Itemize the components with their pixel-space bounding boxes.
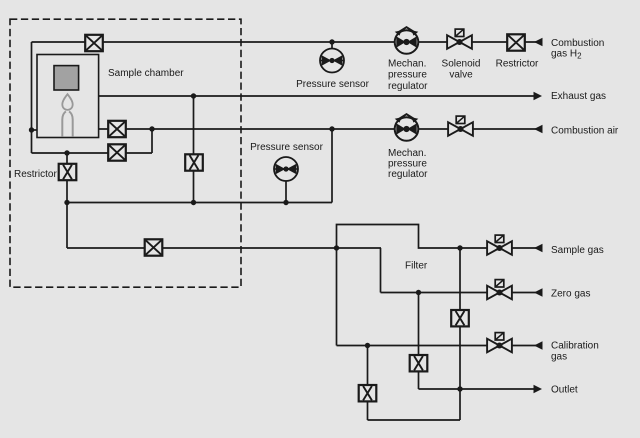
svg-text:Combustion air: Combustion air <box>551 126 619 137</box>
svg-text:Pressure sensor: Pressure sensor <box>296 79 369 90</box>
svg-text:Restrictor: Restrictor <box>496 59 539 70</box>
svg-text:Exhaust gas: Exhaust gas <box>551 91 606 102</box>
svg-text:gas: gas <box>551 352 567 363</box>
svg-text:Calibration: Calibration <box>551 341 599 352</box>
svg-text:pressure: pressure <box>388 70 427 81</box>
svg-text:Solenoid: Solenoid <box>442 59 481 70</box>
svg-text:Restrictor: Restrictor <box>14 169 57 180</box>
svg-text:valve: valve <box>449 70 473 81</box>
svg-text:regulator: regulator <box>388 81 428 92</box>
svg-text:Combustion: Combustion <box>551 38 604 49</box>
svg-text:Sample gas: Sample gas <box>551 245 604 256</box>
svg-text:regulator: regulator <box>388 169 428 180</box>
svg-text:Mechan.: Mechan. <box>388 59 426 70</box>
svg-text:Outlet: Outlet <box>551 385 578 396</box>
svg-text:Filter: Filter <box>405 261 428 272</box>
svg-text:Mechan.: Mechan. <box>388 148 426 159</box>
svg-text:pressure: pressure <box>388 159 427 170</box>
svg-text:Zero gas: Zero gas <box>551 289 590 300</box>
svg-text:Sample chamber: Sample chamber <box>108 68 184 79</box>
svg-text:Pressure sensor: Pressure sensor <box>250 142 323 153</box>
